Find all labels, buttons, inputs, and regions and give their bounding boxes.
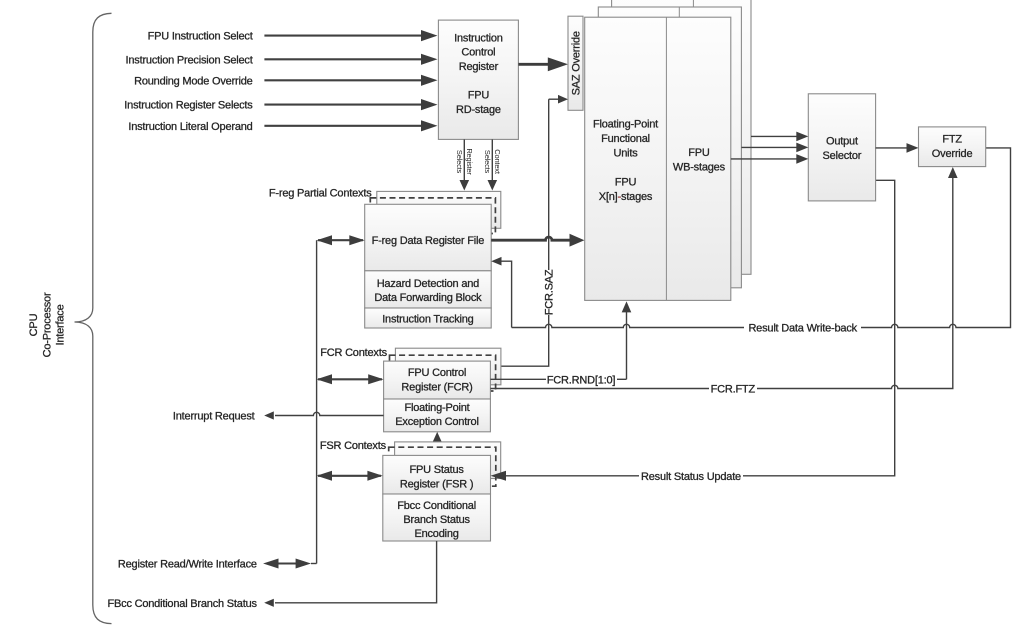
wire Result Data Write-back into F-reg [491,257,511,328]
box FPU pipeline stack back [612,0,751,274]
context stack FCR (solid) [395,348,501,385]
label F-reg Partial Contexts [269,187,372,199]
svg-text:Encoding: Encoding [414,528,458,540]
wire FCR.RND horizontal with inline label [490,378,626,380]
svg-text:Exception Control: Exception Control [395,416,478,428]
svg-text:Control: Control [461,47,495,59]
box F-reg Data Register File [365,204,492,270]
wire thick F-reg to FPU [491,234,584,247]
label CPU Co-Processor Interface (rotated) [28,292,66,357]
wire Rounding Mode Override [264,75,437,86]
svg-text:Output: Output [826,135,858,147]
wire Register Selects arrow [460,139,470,190]
label Result Status Update [641,471,741,483]
label FCR.RND[1:0] [547,374,616,386]
wire Interrupt Request [264,411,383,419]
wire Result Status Update with inline label [491,180,895,481]
label FCR Contexts [320,347,387,359]
wire double arrow bus to F-reg [317,235,365,245]
svg-text:Branch Status: Branch Status [403,514,470,526]
svg-text:Floating-Point: Floating-Point [404,402,469,414]
svg-text:Instruction Literal Operand: Instruction Literal Operand [128,121,252,133]
svg-text:Register (FSR ): Register (FSR ) [400,478,473,490]
svg-text:FPU: FPU [688,147,710,159]
wire Instruction Literal Operand [264,120,437,131]
svg-text:Instruction Register Selects: Instruction Register Selects [124,100,253,112]
svg-text:Hazard Detection and: Hazard Detection and [377,278,479,290]
wire WB front box to Output Selector [731,154,809,164]
svg-text:Register (FCR): Register (FCR) [401,381,472,393]
svg-text:Register Read/Write Interface: Register Read/Write Interface [118,559,257,571]
svg-text:WB-stages: WB-stages [673,161,726,173]
svg-text:FTZ: FTZ [942,134,962,146]
wire Output Selector to FTZ Override [876,143,919,153]
wire FPU Instruction Select [264,30,437,41]
label FCR.SAZ (rotated inline) [544,269,556,315]
label Instruction Precision Select [126,54,253,66]
svg-text:Selector: Selector [823,150,862,162]
wire Result Data Write-back horizontal [512,148,1011,328]
label Instruction Literal Operand [128,121,252,133]
box FPU pipeline stack middle [598,7,741,288]
label Register Read/Write Interface [118,559,257,571]
label FPU Instruction Select [148,31,253,43]
box Instruction Control Register / FPU RD-stage [438,20,518,139]
wire FBcc Conditional Branch Status [264,541,436,607]
svg-text:Rounding Mode Override: Rounding Mode Override [134,75,253,87]
wire Instruction Precision Select [264,54,437,65]
box Output Selector [808,94,875,201]
label FBcc Conditional Branch Status [107,598,257,610]
label Interrupt Request [173,411,255,423]
context stack FSR (solid) [395,442,501,479]
svg-text:Instruction: Instruction [454,32,503,44]
wire Instruction Register Selects [264,99,437,110]
svg-text:Instruction Precision Select: Instruction Precision Select [126,54,253,66]
box SAZ Override [568,16,583,110]
svg-text:FPU: FPU [468,90,490,102]
svg-text:ContextSelects: ContextSelects [483,149,502,175]
label FCR.FTZ [711,384,756,396]
svg-text:FPU: FPU [615,177,637,189]
svg-text:Result Data Write-back: Result Data Write-back [748,323,857,335]
box Floating-Point Exception Control [384,399,491,432]
svg-text:Data Forwarding Block: Data Forwarding Block [374,292,482,304]
label Instruction Register Selects [124,100,253,112]
svg-text:FPU Status: FPU Status [409,464,464,476]
wire FCR.SAZ vertical with inline label [490,95,568,366]
label FSR Contexts [320,440,387,452]
svg-text:RD-stage: RD-stage [456,104,501,116]
label Rounding Mode Override [134,75,253,87]
context stack FSR (dashed) [389,447,496,486]
svg-text:RegisterSelects: RegisterSelects [455,148,474,175]
svg-text:FSR Contexts: FSR Contexts [320,440,387,452]
brace CPU interface [75,13,112,623]
svg-text:FPU Instruction Select: FPU Instruction Select [148,31,253,43]
wire FCR.RND vertical to FPU [622,301,632,379]
svg-text:Floating-Point: Floating-Point [593,119,658,131]
svg-text:SAZ Override: SAZ Override [570,31,582,95]
svg-text:FCR.FTZ: FCR.FTZ [711,384,756,396]
label Context Selects (rotated) [483,149,502,175]
box Instruction Tracking [365,308,492,328]
svg-text:FCR Contexts: FCR Contexts [320,347,387,359]
svg-text:FCR.SAZ: FCR.SAZ [544,269,556,315]
svg-text:Interrupt Request: Interrupt Request [173,411,255,423]
label Register Selects (rotated) [455,148,474,175]
svg-text:X[n]-stages: X[n]-stages [599,191,653,203]
box FPU Control Register (FCR) [384,361,491,399]
wire Register Read/Write Interface double arrow [263,559,317,569]
svg-text:F-reg Partial Contexts: F-reg Partial Contexts [269,187,372,199]
box FPU Status Register (FSR) [383,455,491,494]
svg-text:Units: Units [613,148,638,160]
svg-text:Override: Override [932,148,973,160]
context stack F-reg Partial Contexts (solid) [377,191,501,228]
svg-text:FBcc Conditional Branch Status: FBcc Conditional Branch Status [107,598,257,610]
wire double arrow bus to FSR [317,471,383,481]
wire Context Selects arrow [488,139,498,190]
wire thick ICR to SAZ Override [518,57,568,71]
svg-text:FPU Control: FPU Control [408,367,466,379]
svg-text:Fbcc Conditional: Fbcc Conditional [397,500,476,512]
box FTZ Override [919,127,986,167]
svg-text:Register: Register [459,61,499,73]
wire bus vertical [316,240,318,563]
wire WB back box to Output Selector [751,132,808,142]
svg-text:FCR.RND[1:0]: FCR.RND[1:0] [547,374,616,386]
svg-text:F-reg Data Register File: F-reg Data Register File [372,235,485,247]
box Fbcc Conditional Branch Status Encoding [383,494,491,541]
wire double arrow bus to FCR [317,374,384,384]
box Hazard Detection and Data Forwarding Block [365,271,492,308]
context stack F-reg Partial Contexts (dashed) [370,198,495,234]
svg-text:Instruction Tracking: Instruction Tracking [382,313,473,325]
svg-text:Result Status Update: Result Status Update [641,471,741,483]
box FPU pipeline front: Floating-Point Functional Units / FPU WB-stages [585,17,731,300]
svg-text:Functional: Functional [601,133,650,145]
wire WB middle box to Output Selector [741,143,808,153]
wire FSR to Floating-Point Exception Control [432,432,442,456]
label Result Data Write-back [748,323,857,335]
context stack FCR (dashed) [390,355,496,391]
wire FCR.FTZ with inline label [490,167,957,389]
